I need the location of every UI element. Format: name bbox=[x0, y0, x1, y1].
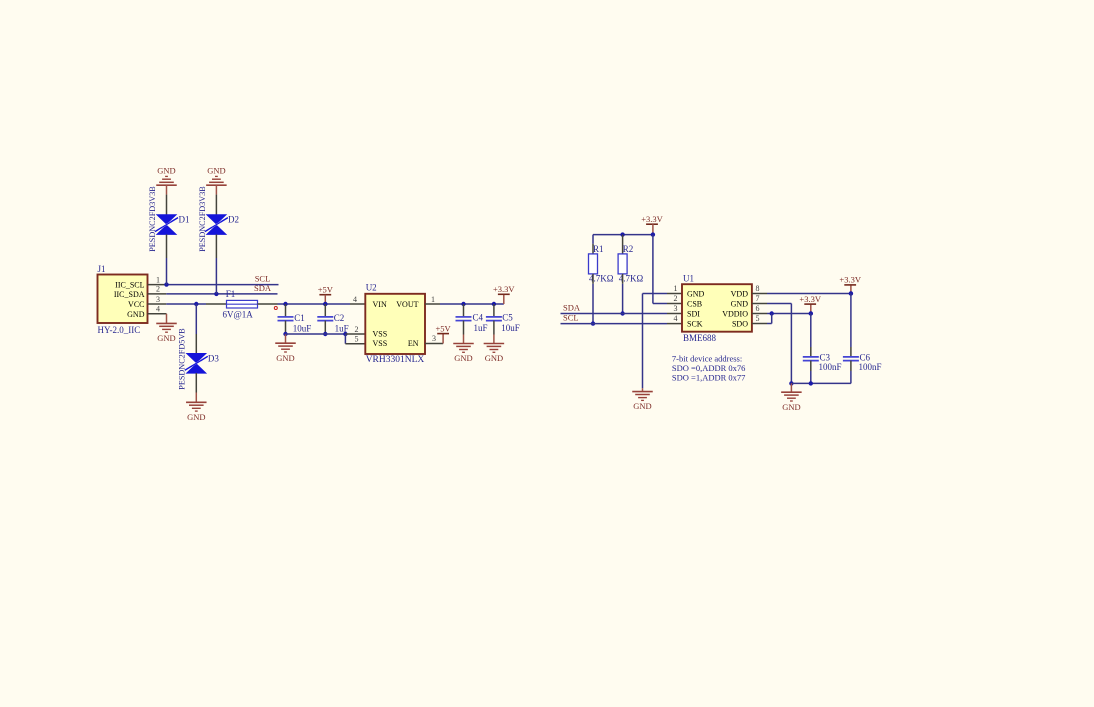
J1 pin 2 stub bbox=[148, 293, 167, 295]
svg-text:J1: J1 bbox=[98, 264, 106, 274]
svg-text:SDA: SDA bbox=[254, 283, 272, 293]
svg-text:GND: GND bbox=[731, 300, 749, 309]
svg-text:10uF: 10uF bbox=[293, 323, 312, 333]
D2 bottom pin bbox=[215, 234, 217, 258]
U2 pin number 4 bbox=[353, 295, 357, 304]
D1 designator bbox=[179, 215, 190, 225]
junction R2 SDA bbox=[620, 311, 624, 315]
U1 value BME688 bbox=[683, 333, 717, 343]
svg-text:SDO =1,ADDR 0x77: SDO =1,ADDR 0x77 bbox=[672, 373, 746, 383]
R1 top pin bbox=[592, 244, 594, 254]
junction at C1 top bbox=[283, 302, 287, 306]
wire R1 top bbox=[592, 235, 594, 244]
wire SCL net right bbox=[561, 323, 668, 325]
D3 value PESDNC2FD5VB bbox=[178, 328, 187, 390]
C4 designator bbox=[473, 313, 484, 323]
U2 pin 2 stub bbox=[345, 333, 365, 335]
svg-text:2: 2 bbox=[355, 325, 359, 334]
U1 pin 1 stub bbox=[667, 293, 682, 295]
ground above D1 bbox=[156, 165, 177, 185]
wire SCL net bbox=[166, 284, 278, 286]
wire pin1 gnd stub bbox=[642, 388, 644, 391]
svg-text:8: 8 bbox=[756, 284, 760, 293]
U1 pin number 7 bbox=[756, 294, 760, 303]
U1 pin 2 stub bbox=[667, 303, 682, 305]
junction R1 SCL bbox=[591, 321, 595, 325]
svg-text:+3.3V: +3.3V bbox=[641, 214, 663, 224]
U1 pin name GND right bbox=[731, 300, 749, 309]
D3 designator bbox=[208, 354, 219, 364]
ground under C1 bbox=[275, 343, 296, 363]
capacitor C6 wire top bbox=[850, 294, 852, 348]
note SDO=0 bbox=[672, 363, 746, 373]
J1 pin name IIC_SDA bbox=[114, 290, 145, 299]
fuse F1 value 6V@1A bbox=[223, 310, 254, 320]
svg-text:VDDIO: VDDIO bbox=[722, 310, 748, 319]
ground under C4 bbox=[453, 344, 474, 364]
svg-text:EN: EN bbox=[408, 339, 419, 348]
wire +3.3V stub at VOUT bbox=[503, 294, 505, 304]
svg-text:D3: D3 bbox=[208, 354, 219, 364]
svg-text:+3.3V: +3.3V bbox=[839, 275, 861, 285]
U1 pin number 3 bbox=[674, 304, 678, 313]
svg-text:GND: GND bbox=[454, 353, 472, 363]
J1 pin number 4 bbox=[156, 305, 160, 314]
power +3.3V mid bbox=[799, 294, 821, 304]
connector J1 value bbox=[98, 325, 141, 335]
fuse F1 body bbox=[227, 300, 258, 308]
wire D1 gnd stub bbox=[166, 185, 168, 194]
U1 pin 8 stub bbox=[752, 293, 767, 295]
wire C1 junction to U2 pin4 bbox=[286, 303, 351, 305]
junction rail CSB bbox=[651, 232, 655, 236]
wire D3 gnd stub bbox=[195, 393, 197, 403]
svg-text:100nF: 100nF bbox=[859, 362, 882, 372]
wire VOUT rail bbox=[440, 303, 504, 305]
wire +3.3V stub mid bbox=[810, 304, 812, 313]
svg-text:R1: R1 bbox=[593, 244, 604, 254]
capacitor C6 top pin bbox=[850, 347, 852, 357]
U2 pin number 1 bbox=[431, 295, 435, 304]
power +3.3V at VOUT bbox=[493, 284, 515, 294]
capacitor C2 bbox=[317, 317, 333, 321]
D1 bottom pin bbox=[166, 234, 168, 258]
R1 bottom pin bbox=[592, 274, 594, 284]
wire VSS rail bbox=[286, 333, 346, 335]
U1 pin name VDDIO bbox=[722, 310, 748, 319]
svg-text:VOUT: VOUT bbox=[396, 300, 418, 309]
capacitor C3 top pin bbox=[810, 347, 812, 357]
capacitor C6 bottom pin bbox=[850, 361, 852, 371]
junction at C1 bottom bbox=[283, 332, 287, 336]
wire +3.3V stub right bbox=[850, 285, 852, 294]
svg-text:PESDNC2FD3V3B: PESDNC2FD3V3B bbox=[198, 186, 207, 252]
svg-text:4: 4 bbox=[674, 314, 678, 323]
capacitor C2 top pin bbox=[324, 304, 326, 317]
svg-text:SCK: SCK bbox=[687, 320, 703, 329]
svg-text:+3.3V: +3.3V bbox=[493, 284, 515, 294]
ground above D2 bbox=[206, 165, 227, 185]
U2 pin number 3 bbox=[432, 334, 436, 343]
wire GND stub from J1 pin4 bbox=[166, 314, 168, 324]
connector J1 designator bbox=[98, 264, 106, 274]
fuse F1 right pin bbox=[258, 303, 278, 305]
svg-text:3: 3 bbox=[432, 334, 436, 343]
capacitor C4 bottom pin bbox=[463, 321, 465, 335]
C3 designator bbox=[820, 352, 831, 362]
svg-text:1uF: 1uF bbox=[474, 323, 488, 333]
svg-text:D1: D1 bbox=[179, 215, 190, 225]
svg-text:D2: D2 bbox=[228, 215, 239, 225]
junction at C4 bbox=[461, 302, 465, 306]
svg-text:C1: C1 bbox=[294, 313, 305, 323]
ground under J1 pin4 bbox=[156, 323, 177, 343]
D2 designator bbox=[228, 215, 239, 225]
D1 value PESDNC2FD3V3B bbox=[148, 186, 157, 252]
U2 value VRH3301NLX bbox=[366, 355, 425, 365]
junction at C2 top bbox=[323, 302, 327, 306]
wire +5V stub bbox=[324, 295, 326, 304]
capacitor C3 bbox=[803, 357, 819, 361]
resistor R1 bbox=[589, 254, 598, 274]
C3 value 100nF bbox=[819, 362, 842, 372]
junction VDDIO C3 bbox=[809, 311, 813, 315]
U1 pin number 1 bbox=[674, 284, 678, 293]
ground under C5 bbox=[484, 344, 505, 364]
svg-text:GND: GND bbox=[157, 333, 175, 343]
J1 pin number 2 bbox=[156, 285, 160, 294]
wire R2 to SDA bbox=[622, 284, 624, 314]
net label SCL right bbox=[563, 313, 579, 323]
wire C1 gnd stub bbox=[285, 334, 287, 343]
note 7-bit device address bbox=[672, 354, 742, 364]
wire C3 to rail bbox=[810, 371, 812, 383]
svg-text:GND: GND bbox=[485, 353, 503, 363]
wire SDA net right bbox=[561, 313, 668, 315]
diode D1 bbox=[155, 214, 178, 235]
net label SDA bbox=[254, 283, 272, 293]
U2 pin name VOUT bbox=[396, 300, 418, 309]
wire SDO riser bbox=[767, 314, 772, 324]
U1 pin number 6 bbox=[756, 304, 760, 313]
C6 value 100nF bbox=[859, 362, 882, 372]
J1 pin 3 stub bbox=[148, 303, 167, 305]
svg-text:1: 1 bbox=[156, 275, 160, 284]
capacitor C3 bottom pin bbox=[810, 361, 812, 371]
C4 value 1uF bbox=[474, 323, 488, 333]
svg-text:GND: GND bbox=[276, 353, 294, 363]
svg-text:HY-2.0_IIC: HY-2.0_IIC bbox=[98, 325, 141, 335]
svg-text:+5V: +5V bbox=[436, 323, 452, 333]
U1 pin 4 stub bbox=[667, 323, 682, 325]
svg-text:PESDNC2FD5VB: PESDNC2FD5VB bbox=[178, 328, 187, 390]
J1 pin 4 stub bbox=[148, 313, 167, 315]
wire CSB riser bbox=[653, 235, 667, 304]
D3 top pin bbox=[195, 334, 197, 354]
net label SCL bbox=[255, 274, 271, 284]
power +5V at EN bbox=[436, 323, 452, 333]
U1 pin number 4 bbox=[674, 314, 678, 323]
R1 designator bbox=[593, 244, 604, 254]
svg-text:F1: F1 bbox=[226, 289, 236, 299]
svg-text:GND: GND bbox=[687, 290, 705, 299]
C5 value 10uF bbox=[501, 323, 520, 333]
junction VDDIO C3 redraw bbox=[809, 311, 813, 315]
wire VCC to fuse bbox=[166, 303, 206, 305]
J1 pin number 3 bbox=[156, 295, 160, 304]
svg-text:BME688: BME688 bbox=[683, 333, 717, 343]
svg-text:6V@1A: 6V@1A bbox=[223, 310, 254, 320]
svg-text:+3.3V: +3.3V bbox=[799, 294, 821, 304]
U2 designator bbox=[366, 283, 377, 293]
wire SDA net bbox=[166, 293, 277, 295]
svg-text:R2: R2 bbox=[623, 244, 634, 254]
wire VSS drop bbox=[344, 334, 346, 344]
svg-text:IIC_SCL: IIC_SCL bbox=[115, 281, 144, 290]
ground under D3 bbox=[186, 402, 207, 422]
R2 bottom pin bbox=[622, 274, 624, 284]
net label SDA right bbox=[563, 303, 581, 313]
svg-text:GND: GND bbox=[187, 412, 205, 422]
D2 top pin bbox=[215, 195, 217, 215]
svg-text:GND: GND bbox=[127, 310, 145, 319]
wire +5V stub at EN bbox=[442, 334, 444, 344]
U1 pin name GND left bbox=[687, 290, 705, 299]
power +3.3V right bbox=[839, 275, 861, 285]
D3 bottom pin bbox=[195, 373, 197, 393]
R2 designator bbox=[623, 244, 634, 254]
junction on SCL at D1 bbox=[164, 282, 168, 286]
svg-text:SDO =0,ADDR 0x76: SDO =0,ADDR 0x76 bbox=[672, 363, 746, 373]
U2 pin name EN bbox=[408, 339, 419, 348]
fuse F1 left pin bbox=[206, 303, 227, 305]
svg-text:VRH3301NLX: VRH3301NLX bbox=[366, 355, 425, 365]
svg-text:GND: GND bbox=[782, 402, 800, 412]
U2 pin 1 stub bbox=[425, 303, 440, 305]
junction C3 rail bbox=[809, 381, 813, 385]
R2 value 4.7K bbox=[619, 274, 644, 284]
wire +3.3V stub top bbox=[652, 224, 654, 234]
wire C5 gnd stub bbox=[493, 335, 495, 344]
wire C4 gnd stub bbox=[463, 335, 465, 344]
U1 pin 7 stub bbox=[752, 303, 767, 305]
svg-text:4: 4 bbox=[156, 305, 160, 314]
diode D2 bbox=[205, 214, 228, 235]
svg-text:GND: GND bbox=[633, 401, 651, 411]
U1 pin number 2 bbox=[674, 294, 678, 303]
capacitor C4 top pin bbox=[463, 304, 465, 317]
svg-text:100nF: 100nF bbox=[819, 362, 842, 372]
C2 designator bbox=[334, 313, 345, 323]
wire R1 to SCL bbox=[592, 284, 594, 324]
sensor U1 body bbox=[682, 284, 752, 332]
wire GND drop pin7 bbox=[767, 304, 791, 384]
diode D3 bbox=[185, 353, 208, 374]
U1 pin number 5 bbox=[756, 314, 760, 323]
svg-text:IIC_SDA: IIC_SDA bbox=[114, 290, 145, 299]
svg-text:PESDNC2FD3V3B: PESDNC2FD3V3B bbox=[148, 186, 157, 252]
wire VDDIO bbox=[767, 313, 811, 315]
svg-text:1: 1 bbox=[674, 284, 678, 293]
junction at C2 top redraw bbox=[323, 302, 327, 306]
wire D2 to SDA bbox=[215, 258, 217, 294]
capacitor C2 bottom pin bbox=[324, 321, 326, 334]
U1 pin number 8 bbox=[756, 284, 760, 293]
C1 value 10uF bbox=[293, 323, 312, 333]
regulator U2 body bbox=[365, 294, 425, 354]
svg-text:GND: GND bbox=[157, 165, 175, 175]
svg-text:GND: GND bbox=[207, 165, 225, 175]
connector J1 body bbox=[98, 275, 148, 324]
capacitor C1 top pin bbox=[285, 304, 287, 317]
svg-text:5: 5 bbox=[756, 314, 760, 323]
svg-text:U1: U1 bbox=[683, 274, 694, 284]
U2 pin number 5 bbox=[355, 335, 359, 344]
svg-text:+5V: +5V bbox=[318, 285, 334, 295]
J1 pin name GND bbox=[127, 310, 145, 319]
C1 designator bbox=[294, 313, 305, 323]
capacitor C1 bbox=[278, 317, 294, 321]
C2 value 1uF bbox=[335, 323, 349, 333]
no-ERC marker red circle bbox=[274, 307, 277, 310]
U1 pin name SDI bbox=[687, 310, 700, 319]
svg-text:2: 2 bbox=[156, 285, 160, 294]
U2 pin name VIN bbox=[373, 300, 387, 309]
resistor R2 bbox=[618, 254, 627, 274]
svg-text:5: 5 bbox=[355, 335, 359, 344]
svg-text:SDI: SDI bbox=[687, 310, 700, 319]
svg-text:3: 3 bbox=[156, 295, 160, 304]
svg-text:VIN: VIN bbox=[373, 300, 387, 309]
ground bottom right bbox=[781, 392, 802, 412]
U1 pin 3 stub bbox=[667, 313, 682, 315]
U1 pin 5 stub bbox=[752, 323, 767, 325]
J1 pin 1 stub bbox=[148, 284, 167, 286]
U1 pin name SCK bbox=[687, 320, 703, 329]
svg-text:C5: C5 bbox=[502, 313, 513, 323]
junction on SDA at D2 bbox=[214, 292, 218, 296]
wire pin7 gnd stub bbox=[790, 383, 792, 392]
junction at C5 bbox=[492, 302, 496, 306]
capacitor C5 bottom pin bbox=[493, 321, 495, 335]
capacitor C6 bbox=[843, 357, 859, 361]
capacitor C5 bbox=[486, 317, 502, 321]
J1 pin name VCC bbox=[128, 300, 144, 309]
power +5V at C2 bbox=[318, 285, 334, 295]
svg-text:C4: C4 bbox=[473, 313, 484, 323]
svg-text:1uF: 1uF bbox=[335, 323, 349, 333]
capacitor C4 bbox=[456, 317, 472, 321]
R1 value 4.7K bbox=[589, 274, 614, 284]
junction SDO-VDDIO bbox=[770, 311, 774, 315]
wire C6 to rail bbox=[850, 371, 852, 383]
U2 pin number 2 bbox=[355, 325, 359, 334]
ground under U1 pin1 bbox=[632, 392, 653, 412]
wire D1 to SCL bbox=[166, 258, 168, 285]
wire bottom rail bbox=[791, 382, 851, 384]
svg-text:SDO: SDO bbox=[732, 320, 748, 329]
U2 pin 3 stub bbox=[425, 343, 443, 345]
junction rail R2 bbox=[620, 232, 624, 236]
wire VCC down to D3 bbox=[195, 304, 197, 334]
C5 designator bbox=[502, 313, 513, 323]
junction VDD C6 bbox=[849, 291, 853, 295]
svg-text:CSB: CSB bbox=[687, 300, 702, 309]
D1 top pin bbox=[166, 195, 168, 215]
power +3.3V top rail symbol bbox=[641, 214, 663, 224]
U1 pin name SDO bbox=[732, 320, 748, 329]
svg-text:C2: C2 bbox=[334, 313, 345, 323]
capacitor C5 top pin bbox=[493, 304, 495, 317]
svg-text:3: 3 bbox=[674, 304, 678, 313]
junction VDD C6 redraw bbox=[849, 291, 853, 295]
svg-text:VSS: VSS bbox=[373, 339, 388, 348]
svg-text:C3: C3 bbox=[820, 352, 831, 362]
wire fuse to C1 bbox=[278, 303, 286, 305]
svg-text:10uF: 10uF bbox=[501, 323, 520, 333]
capacitor C1 bottom pin bbox=[285, 321, 287, 334]
U2 pin 5 stub bbox=[345, 343, 365, 345]
fuse F1 designator bbox=[226, 289, 236, 299]
svg-text:U2: U2 bbox=[366, 283, 377, 293]
junction bottom rail gnd bbox=[789, 381, 793, 385]
junction at VSS branch bbox=[343, 332, 347, 336]
U1 pin 6 stub bbox=[752, 313, 767, 315]
svg-text:VCC: VCC bbox=[128, 300, 144, 309]
svg-text:VSS: VSS bbox=[373, 330, 388, 339]
wire GND from pin1 bbox=[643, 294, 668, 389]
wire R2 top pin bbox=[622, 235, 624, 254]
svg-text:7: 7 bbox=[756, 294, 760, 303]
wire VDD rail bbox=[767, 293, 851, 295]
J1 pin name IIC_SCL bbox=[115, 281, 144, 290]
note SDO=1 bbox=[672, 373, 746, 383]
svg-text:6: 6 bbox=[756, 304, 760, 313]
D2 value PESDNC2FD3V3B bbox=[198, 186, 207, 252]
junction at C2 bottom bbox=[323, 332, 327, 336]
U1 designator bbox=[683, 274, 694, 284]
svg-text:SCL: SCL bbox=[563, 313, 579, 323]
svg-text:4: 4 bbox=[353, 295, 357, 304]
wire pullup rail bbox=[593, 234, 653, 236]
svg-text:SDA: SDA bbox=[563, 303, 581, 313]
U2 pin 4 stub bbox=[350, 303, 365, 305]
svg-text:VDD: VDD bbox=[731, 290, 749, 299]
U2 pin name VSS a bbox=[373, 330, 388, 339]
svg-text:7-bit device address:: 7-bit device address: bbox=[672, 354, 742, 364]
C6 designator bbox=[860, 352, 871, 362]
U1 pin name VDD bbox=[731, 290, 749, 299]
svg-text:1: 1 bbox=[431, 295, 435, 304]
U2 pin name VSS b bbox=[373, 339, 388, 348]
svg-text:C6: C6 bbox=[860, 352, 871, 362]
wire D2 gnd stub bbox=[215, 185, 217, 194]
U1 pin name CSB bbox=[687, 300, 702, 309]
capacitor C3 wire top bbox=[810, 314, 812, 348]
svg-text:2: 2 bbox=[674, 294, 678, 303]
junction VCC at D3 bbox=[194, 302, 198, 306]
J1 pin number 1 bbox=[156, 275, 160, 284]
